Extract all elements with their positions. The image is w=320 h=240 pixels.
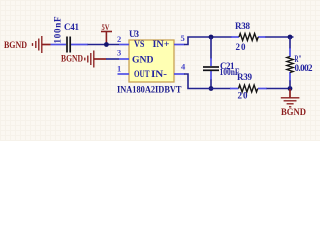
wire (bottom rail, junction to R39)	[211, 88, 231, 90]
svg-text:BGND: BGND	[61, 54, 83, 64]
resistor R39, 20	[230, 72, 267, 101]
svg-text:0.002: 0.002	[295, 63, 314, 73]
svg-text:5: 5	[181, 33, 185, 43]
svg-text:IN+: IN+	[153, 40, 170, 50]
svg-text:2: 2	[117, 34, 121, 44]
wire (pin 5 up to top rail)	[184, 37, 211, 45]
svg-text:INA180A2IDBVT: INA180A2IDBVT	[117, 86, 182, 96]
pin 1 of C41	[51, 44, 67, 46]
svg-text:20: 20	[238, 91, 249, 101]
wire (pin 4 down to bottom rail)	[184, 74, 211, 89]
wire (top rail, junction to R38)	[211, 36, 232, 38]
svg-text:100nF: 100nF	[53, 16, 63, 44]
junction (C21 bottom)	[209, 86, 214, 91]
wire (R38 to right node)	[266, 36, 294, 38]
power port BGND (second, at U3 GND)	[61, 51, 106, 68]
wire (R" to bottom rail)	[289, 81, 291, 89]
power port BGND (bottom right, earth ground)	[281, 89, 307, 117]
svg-text:R39: R39	[237, 72, 253, 82]
wire (R39 to right node)	[267, 88, 291, 90]
svg-text:1: 1	[117, 64, 121, 74]
svg-text:BGND: BGND	[4, 41, 27, 51]
svg-text:IN-: IN-	[151, 70, 167, 80]
pin 4 (IN-)	[174, 62, 186, 75]
pin 2 of C41	[71, 44, 88, 46]
svg-text:GND: GND	[132, 55, 154, 65]
junction (5V onto pin2 wire)	[104, 42, 109, 47]
wire (top junction down to R")	[289, 37, 291, 49]
svg-text:OUT: OUT	[134, 70, 150, 80]
power port 5V	[101, 22, 112, 44]
capacitor C21, 100nF	[203, 58, 240, 80]
svg-text:U3: U3	[129, 29, 140, 39]
wire (BGND to U3 pin 3)	[106, 58, 119, 60]
svg-text:R38: R38	[235, 21, 251, 31]
power port BGND (left, net BGND)	[4, 36, 51, 53]
svg-text:VS: VS	[134, 40, 145, 50]
resistor R38, 20	[231, 21, 266, 52]
svg-text:C41: C41	[64, 22, 80, 32]
pin 2 (VS)	[117, 34, 129, 45]
pin 1 (OUT)	[117, 64, 129, 75]
wire (C21 bottom pin to bottom rail)	[210, 80, 212, 89]
svg-text:BGND: BGND	[281, 107, 306, 117]
wire (C41 to U3 pin 2, net 5V)	[88, 44, 120, 46]
junction (C21 top)	[209, 35, 214, 40]
capacitor C41, 100nF	[51, 16, 89, 53]
IC U3 INA180A2IDBVT body	[117, 29, 182, 96]
junction (top of R")	[288, 35, 293, 40]
pin 3 (GND)	[117, 48, 129, 60]
resistor R" (shunt), 0.002	[287, 48, 313, 81]
wire (C21 top pin from junction)	[210, 37, 212, 59]
svg-text:20: 20	[236, 42, 247, 52]
plates	[66, 37, 68, 53]
svg-text:5V: 5V	[102, 22, 111, 32]
pin 5 (IN+)	[174, 33, 185, 45]
svg-text:3: 3	[117, 48, 121, 58]
junction (bottom of R")	[288, 86, 293, 91]
